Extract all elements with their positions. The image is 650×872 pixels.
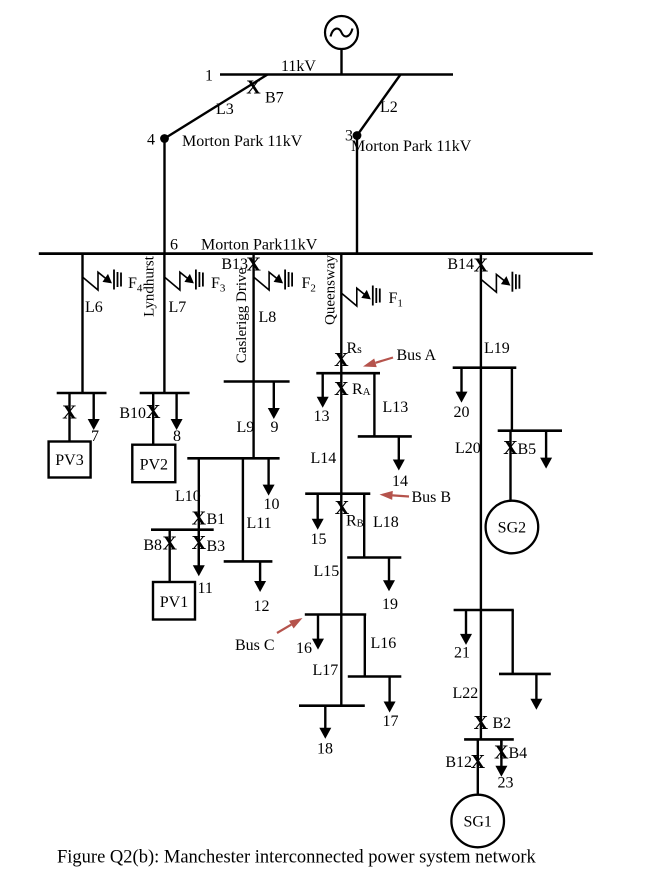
Lyndhurst load bus bar (140, 392, 190, 395)
L18 bus bar (347, 556, 401, 559)
svg-text:F3: F3 (211, 275, 226, 295)
generator SG1 (451, 795, 504, 848)
line L10 (198, 458, 200, 529)
svg-text:X: X (471, 751, 486, 773)
svg-text:13: 13 (314, 408, 330, 425)
bus 1 (11kV) (220, 73, 453, 76)
svg-text:B5: B5 (518, 441, 537, 458)
breaker B4 and load 23 (500, 739, 502, 758)
line L18 (363, 494, 365, 558)
svg-text:PV2: PV2 (140, 457, 168, 474)
load 18 arrow (324, 706, 326, 731)
line L13 (373, 373, 375, 436)
wire to PV1 (168, 530, 170, 582)
svg-text:9: 9 (271, 419, 279, 436)
load 9 arrow (273, 382, 275, 412)
Queensway bottom bar (299, 704, 365, 707)
svg-text:10: 10 (264, 496, 280, 513)
fault F2 (254, 272, 280, 290)
svg-text:8: 8 (173, 428, 181, 445)
svg-text:Bus B: Bus B (412, 489, 452, 506)
load 15 arrow (317, 494, 319, 522)
svg-text:L10: L10 (175, 488, 201, 505)
svg-text:L8: L8 (259, 309, 277, 326)
PV2 unit (132, 445, 175, 483)
generator SG2 (486, 501, 539, 554)
svg-text:23: 23 (498, 775, 514, 792)
PV3 unit (49, 442, 91, 478)
svg-text:11: 11 (198, 580, 213, 597)
L16 bus bar (348, 675, 402, 678)
Caslerigg bus bar 1 (224, 380, 290, 383)
svg-text:12: 12 (254, 598, 270, 615)
feeder L6 wire (81, 254, 83, 393)
svg-text:14: 14 (392, 473, 408, 490)
svg-text:17: 17 (383, 713, 399, 730)
svg-text:L16: L16 (371, 635, 397, 652)
load 13 arrow (322, 373, 324, 400)
svg-text:Rs: Rs (347, 340, 363, 357)
line L11 (242, 458, 244, 561)
load 17 arrow (388, 677, 390, 705)
line L3 (165, 75, 268, 139)
svg-text:L2: L2 (380, 99, 398, 116)
svg-text:SG2: SG2 (498, 520, 526, 537)
svg-text:15: 15 (311, 531, 327, 548)
load 21 arrow (465, 610, 467, 637)
svg-text:7: 7 (91, 428, 99, 445)
Caslerigg bus bar 2 (187, 457, 279, 460)
svg-text:B2: B2 (493, 715, 512, 732)
B14 feeder wire (480, 254, 482, 740)
svg-text:Morton Park 11kV: Morton Park 11kV (351, 138, 472, 155)
svg-text:L15: L15 (314, 563, 340, 580)
svg-text:RB: RB (346, 513, 364, 530)
Bus B pointer (393, 495, 410, 496)
svg-text:L6: L6 (85, 299, 103, 316)
Bus A bar (316, 372, 380, 375)
svg-text:B10: B10 (119, 405, 146, 422)
svg-text:Bus A: Bus A (397, 347, 437, 364)
svg-text:X: X (162, 533, 177, 555)
SG1 bus bar (464, 738, 514, 741)
wire node 3 to bus 6 (356, 136, 358, 256)
svg-text:Lyndhurst: Lyndhurst (142, 255, 158, 317)
load 14 arrow (398, 436, 400, 462)
svg-text:Morton Park 11kV: Morton Park 11kV (182, 133, 303, 150)
Lyndhurst feeder wire (163, 254, 165, 393)
generator G1 (AC source) (325, 16, 358, 49)
Caslerigg feeder wire (252, 254, 254, 459)
svg-text:B12: B12 (445, 754, 472, 771)
svg-text:X: X (62, 402, 77, 424)
bus 6 Morton Park 11kV (39, 252, 593, 255)
svg-text:X: X (146, 401, 161, 423)
Bus C pointer (277, 625, 291, 633)
svg-text:L22: L22 (453, 685, 479, 702)
Bus C bar (305, 613, 366, 616)
node 3 (353, 131, 362, 140)
svg-text:L14: L14 (311, 450, 337, 467)
breaker B5 (509, 431, 511, 501)
Queensway feeder wire (340, 254, 342, 706)
svg-text:20: 20 (454, 404, 470, 421)
Bus B bar (305, 492, 370, 495)
fault F3 (164, 272, 190, 290)
wire node 4 to bus 6 (163, 139, 165, 255)
L11 bus bar (224, 560, 273, 563)
svg-text:PV3: PV3 (55, 452, 83, 469)
svg-text:B3: B3 (207, 538, 226, 555)
svg-text:L9: L9 (237, 419, 255, 436)
svg-text:Queensway: Queensway (323, 255, 339, 325)
node 4 (160, 134, 169, 143)
svg-text:X: X (334, 349, 349, 371)
breaker B3 and load 11 (198, 530, 200, 566)
svg-text:L11: L11 (247, 515, 272, 532)
svg-text:19: 19 (382, 596, 398, 613)
svg-text:1: 1 (205, 68, 213, 85)
fault F4 (83, 272, 109, 290)
svg-text:L20: L20 (455, 440, 481, 457)
svg-text:X: X (503, 437, 518, 459)
svg-text:21: 21 (454, 645, 470, 662)
svg-text:L18: L18 (373, 514, 399, 531)
svg-text:X: X (192, 508, 207, 530)
wire to PV2 (152, 393, 154, 445)
L6 load bus bar (57, 392, 107, 395)
unnamed load arrow lower right (535, 674, 537, 702)
load 7 arrow (92, 393, 94, 422)
svg-text:X: X (192, 532, 207, 554)
L21 bus bar (454, 609, 514, 612)
svg-text:B4: B4 (509, 745, 528, 762)
svg-text:11kV: 11kV (281, 58, 316, 75)
svg-text:B1: B1 (207, 511, 226, 528)
lower right bus bar (499, 673, 551, 676)
svg-text:18: 18 (317, 741, 333, 758)
svg-text:16: 16 (296, 640, 312, 657)
svg-text:L13: L13 (383, 399, 409, 416)
svg-text:Morton Park11kV: Morton Park11kV (201, 237, 318, 254)
svg-text:SG1: SG1 (463, 814, 491, 831)
line L16 (364, 615, 366, 677)
load 16 arrow (317, 615, 319, 642)
svg-text:B8: B8 (143, 537, 162, 554)
svg-text:6: 6 (170, 237, 178, 254)
svg-text:Figure Q2(b): Manchester inter: Figure Q2(b): Manchester interconnected … (57, 848, 537, 868)
load 20 arrow (460, 368, 462, 395)
fault on B14 feeder (481, 274, 507, 292)
svg-text:B14: B14 (447, 256, 474, 273)
svg-text:X: X (334, 378, 349, 400)
wire to PV3 (68, 393, 70, 442)
load 10 arrow (267, 458, 269, 487)
svg-text:F2: F2 (302, 275, 316, 295)
load 8 arrow (175, 393, 177, 422)
svg-text:X: X (494, 742, 509, 764)
line L2 (357, 75, 401, 136)
L19 bus bar (453, 366, 517, 369)
L13 bus bar (358, 435, 412, 438)
wire to lower bar (512, 610, 514, 674)
svg-text:Caslerigg Drive: Caslerigg Drive (234, 267, 250, 363)
load 19 arrow (388, 558, 390, 584)
PV1 bus bar (151, 528, 214, 531)
SG2 bus bar (498, 429, 562, 432)
svg-text:L17: L17 (313, 662, 339, 679)
svg-text:4: 4 (147, 132, 155, 149)
svg-text:PV1: PV1 (160, 594, 188, 611)
fault F1 (341, 288, 367, 306)
svg-text:L7: L7 (169, 299, 187, 316)
wire generator to bus 1 (340, 49, 342, 76)
svg-text:F1: F1 (389, 290, 403, 310)
svg-text:L3: L3 (216, 101, 234, 118)
Bus A pointer (376, 358, 394, 363)
svg-text:RA: RA (352, 381, 371, 398)
svg-text:Bus C: Bus C (235, 637, 275, 654)
svg-text:X: X (246, 77, 261, 99)
PV1 unit (153, 582, 195, 620)
wire to SG1 (477, 739, 479, 794)
load 12 arrow (259, 561, 261, 584)
unnamed load arrow right of B5 (545, 431, 547, 461)
wire to SG2 bar (511, 368, 513, 431)
svg-text:B7: B7 (265, 90, 284, 107)
svg-text:X: X (474, 712, 489, 734)
svg-text:L19: L19 (484, 340, 510, 357)
